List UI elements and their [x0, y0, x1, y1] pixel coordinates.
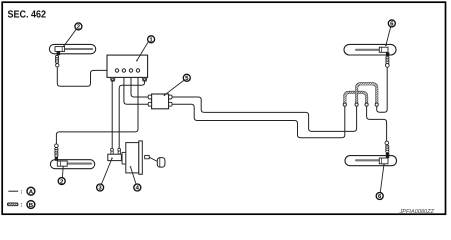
rear tube node 3 — [365, 103, 368, 106]
wire: actuator right foot to master cylinder right nipple — [119, 80, 144, 148]
wire: rear tube node 3 to rear hose 6 (bottom-right) — [367, 106, 387, 141]
wire: rear tube node 4 to rear hose 6 (top-right) — [377, 67, 388, 112]
svg-text:SEC. 462: SEC. 462 — [8, 10, 47, 21]
svg-text:A: A — [29, 189, 34, 196]
wire: connector 5 lower-right to rear tube node 1 — [172, 104, 345, 138]
actuator port 3 — [129, 69, 132, 72]
label 2 (top) — [63, 23, 82, 47]
legend line symbol A — [8, 187, 35, 195]
svg-text:B: B — [29, 202, 34, 209]
front hose 2 bottom-left — [50, 144, 94, 169]
svg-text:JPFIA0080ZZ: JPFIA0080ZZ — [398, 209, 434, 215]
actuator right foot — [142, 77, 146, 81]
label 6 (top) — [385, 20, 395, 46]
label 6 (bottom) — [376, 163, 385, 200]
label 3 — [97, 158, 113, 192]
wire: actuator port 2 to connector 5 lower-left — [124, 72, 148, 104]
rear flexible tube B (tall staple) — [357, 84, 377, 103]
svg-text::: : — [20, 202, 22, 209]
svg-text::: : — [20, 188, 22, 195]
actuator port 1 — [115, 69, 118, 72]
rear tube node 4 — [375, 103, 378, 106]
label 4 — [130, 166, 141, 192]
master cylinder 3 — [108, 148, 122, 160]
rear flexible tube B (short staple) — [345, 92, 367, 103]
rear hose 6 bottom-right — [345, 141, 397, 166]
wire: front hose 2 (top-left) to actuator port 1 — [57, 67, 115, 86]
label 5 — [164, 74, 191, 96]
ABS actuator box 1 — [107, 55, 148, 81]
rear hose 6 top-right — [344, 44, 396, 67]
front hose 2 top-left — [49, 44, 95, 66]
connector 5 — [148, 94, 172, 109]
label 2 (bottom) — [58, 166, 65, 186]
wire: actuator port 3 to connector 5 upper-left — [131, 72, 148, 97]
actuator left foot — [111, 77, 115, 81]
legend hose symbol B — [7, 201, 34, 209]
label 1 — [136, 36, 155, 62]
actuator port 2 — [122, 69, 125, 72]
rear tube node 2 — [355, 103, 358, 106]
wire: actuator port 4 to front hose 2 (bottom-left) — [56, 72, 138, 144]
wire: connector 5 upper-right to rear tube node 2 — [172, 97, 356, 131]
wire: actuator left foot to master cylinder left nipple — [111, 80, 113, 148]
brake booster 4 — [122, 141, 165, 174]
actuator port 4 — [136, 69, 139, 72]
rear tube node 1 — [343, 103, 346, 106]
